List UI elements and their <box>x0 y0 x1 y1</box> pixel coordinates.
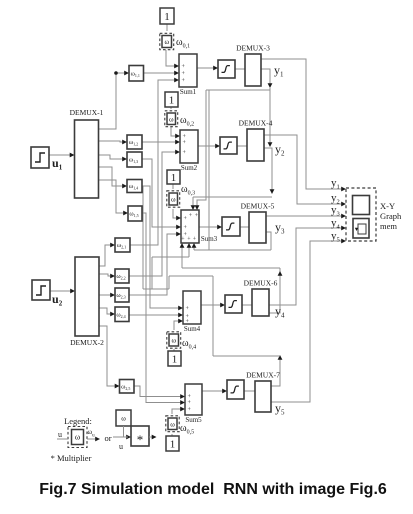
svg-text:ω: ω <box>171 196 176 204</box>
svg-text:* Multiplier: * Multiplier <box>51 453 92 463</box>
svg-text:mem: mem <box>380 221 397 231</box>
svg-text:DEMUX-4: DEMUX-4 <box>239 119 273 128</box>
svg-text:Sum5: Sum5 <box>185 416 202 424</box>
svg-text:1: 1 <box>170 438 176 450</box>
svg-text:ω: ω <box>170 420 175 428</box>
svg-text:Sum4: Sum4 <box>184 325 201 333</box>
svg-text:DEMUX-7: DEMUX-7 <box>246 371 280 380</box>
svg-text:1: 1 <box>172 353 178 365</box>
svg-text:+: + <box>184 216 188 222</box>
svg-text:DEMUX-6: DEMUX-6 <box>244 279 278 288</box>
svg-text:+: + <box>186 306 190 312</box>
svg-text:or: or <box>104 433 111 443</box>
svg-text:ω: ω <box>75 433 80 442</box>
svg-text:DEMUX-2: DEMUX-2 <box>70 338 104 347</box>
svg-text:DEMUX-3: DEMUX-3 <box>236 44 270 53</box>
svg-text:X-Y: X-Y <box>380 201 395 211</box>
svg-text:+: + <box>183 140 187 146</box>
svg-text:+: + <box>182 78 186 84</box>
svg-text:+: + <box>188 400 192 406</box>
svg-text:+: + <box>183 150 187 156</box>
svg-text:ω: ω <box>164 38 169 46</box>
svg-text:Sum2: Sum2 <box>181 164 198 172</box>
svg-text:+: + <box>182 71 186 77</box>
svg-text:DEMUX-1: DEMUX-1 <box>70 108 104 117</box>
svg-text:Legend:: Legend: <box>64 416 92 426</box>
svg-text:+: + <box>188 407 192 413</box>
svg-text:*: * <box>137 432 144 447</box>
svg-text:Graph: Graph <box>380 211 402 221</box>
svg-text:+: + <box>182 64 186 70</box>
svg-text:Sum1: Sum1 <box>180 88 197 96</box>
svg-text:1: 1 <box>169 94 175 106</box>
svg-text:ω: ω <box>171 337 176 345</box>
svg-text:DEMUX-5: DEMUX-5 <box>241 202 275 211</box>
svg-text:1: 1 <box>171 172 177 184</box>
svg-text:+: + <box>184 225 188 231</box>
svg-text:u: u <box>58 430 62 439</box>
svg-text:1: 1 <box>164 11 170 23</box>
svg-text:ω: ω <box>121 415 126 423</box>
svg-text:ω: ω <box>169 115 174 123</box>
svg-text:Fig.7 Simulation model RNN wi: Fig.7 Simulation model RNN with image Fi… <box>39 481 387 498</box>
svg-text:Sum3: Sum3 <box>201 235 218 243</box>
svg-text:u: u <box>119 442 123 451</box>
